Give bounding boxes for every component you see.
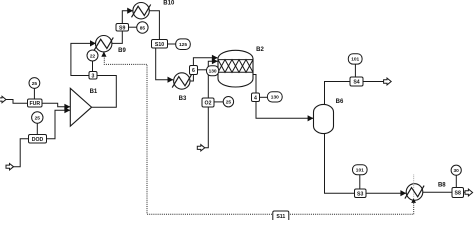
wire O2 feed to B2 bbox=[205, 61, 218, 148]
wire DOD to B1 bbox=[47, 110, 71, 139]
heat exchanger B9 bbox=[94, 36, 113, 52]
wire bubble 125 to S10 bbox=[168, 43, 176, 45]
bubble 130a bbox=[207, 66, 219, 76]
wire stream S3 B6 bottom to B8 bbox=[325, 133, 407, 193]
stream box DOD bbox=[29, 135, 47, 144]
stream box FUR bbox=[28, 99, 43, 107]
wire bubble 101a to S4 bbox=[354, 64, 356, 77]
arrowhead into B2 from stream 6 bbox=[212, 55, 218, 61]
svg-text:125: 125 bbox=[179, 42, 187, 48]
flash vessel B6 bbox=[314, 104, 334, 133]
bubble 25b bbox=[32, 112, 43, 123]
heat exchanger B3 bbox=[172, 73, 191, 89]
arrowhead into B1 from DOD bbox=[64, 107, 70, 113]
wire bubble 22 to box3 bbox=[92, 61, 94, 72]
arrowhead into B10 bbox=[127, 8, 133, 14]
stream box S8 bbox=[452, 188, 464, 198]
energy stream S11 dashed line B9 to B8 bbox=[104, 56, 413, 215]
svg-text:85: 85 bbox=[140, 25, 146, 31]
wire stream S10 B10 down bbox=[149, 11, 159, 43]
arrowhead energy into B9 bottom bbox=[101, 52, 106, 57]
bubble 101a bbox=[348, 54, 362, 64]
energy stream S11 faint segment through B8 bbox=[413, 175, 415, 202]
bubble 25c bbox=[223, 97, 233, 107]
svg-text:S10: S10 bbox=[155, 42, 164, 48]
heat exchanger B10 bbox=[132, 3, 151, 19]
wire FUR to B1 bbox=[42, 103, 70, 107]
product arrow S4 bbox=[384, 78, 392, 85]
svg-text:B9: B9 bbox=[118, 48, 126, 54]
heat exchanger B8 zigzag bbox=[405, 186, 424, 199]
stream box S10 bbox=[152, 40, 168, 49]
svg-text:25: 25 bbox=[32, 81, 38, 87]
svg-text:101: 101 bbox=[356, 168, 364, 174]
wire bubble 101b to S3 bbox=[359, 175, 361, 189]
svg-text:30: 30 bbox=[454, 168, 460, 174]
svg-text:6: 6 bbox=[192, 68, 195, 74]
wire stream 6 B3 to B2 bbox=[190, 58, 218, 81]
stream box S9 bbox=[116, 24, 129, 32]
wire stream S10 to B3 bbox=[156, 44, 173, 80]
arrowhead into B3 bbox=[168, 77, 174, 83]
bubble 22 bbox=[87, 50, 98, 61]
svg-text:S9: S9 bbox=[119, 25, 125, 31]
wire stream 3 box3 to B9 bbox=[71, 43, 96, 75]
bubble 125 bbox=[176, 39, 191, 50]
bubble 101b bbox=[353, 165, 368, 175]
stream box 6 bbox=[190, 66, 198, 75]
svg-text:FUR: FUR bbox=[29, 101, 40, 107]
svg-text:S8: S8 bbox=[455, 191, 461, 197]
wire feed1 to FUR bbox=[6, 100, 28, 104]
arrowhead into B2 from O2 bbox=[212, 58, 218, 64]
svg-text:B8: B8 bbox=[438, 182, 446, 188]
svg-text:S4: S4 bbox=[353, 80, 359, 86]
svg-text:S3: S3 bbox=[357, 191, 363, 197]
wire bubble 130a to box6 bbox=[198, 69, 207, 71]
arrowhead energy into B8 bottom bbox=[411, 198, 416, 203]
heat exchanger B8 bbox=[406, 184, 423, 201]
feed arrow O2 bbox=[197, 145, 205, 151]
arrowhead into B9 bbox=[90, 40, 96, 46]
wire stream S9 B9 to B10 bbox=[112, 11, 133, 44]
wire stream S4 B6 top to product bbox=[325, 82, 384, 105]
bubble 25a bbox=[29, 78, 40, 89]
svg-text:101: 101 bbox=[351, 57, 359, 63]
svg-text:25: 25 bbox=[35, 115, 41, 121]
stream box 4 bbox=[252, 93, 260, 102]
stream box O2 bbox=[202, 98, 214, 107]
arrowhead into B6 bbox=[308, 115, 314, 121]
stream box S11 bbox=[273, 211, 289, 221]
svg-text:3: 3 bbox=[92, 73, 95, 79]
wire bubble 25a to FUR bbox=[33, 88, 35, 99]
product arrow S8 bbox=[465, 189, 473, 196]
svg-text:25: 25 bbox=[226, 100, 232, 106]
svg-text:S11: S11 bbox=[276, 214, 285, 220]
wire stream 3 B1 to box3 bbox=[92, 76, 117, 108]
svg-text:B3: B3 bbox=[179, 96, 187, 102]
bubble 30 bbox=[451, 165, 461, 175]
wire bubble 130b to box4 bbox=[260, 96, 268, 98]
wire stream S8 B8 to product bbox=[423, 191, 466, 193]
svg-text:O2: O2 bbox=[205, 101, 212, 107]
reactor B2 bbox=[218, 50, 253, 87]
bubble 130b bbox=[267, 92, 282, 102]
compressor B1 bbox=[70, 88, 91, 126]
svg-text:B2: B2 bbox=[256, 47, 264, 53]
stream box S3 bbox=[355, 189, 367, 198]
wire bubble 25c to O2 box bbox=[214, 101, 223, 103]
svg-text:22: 22 bbox=[90, 53, 96, 59]
stream box 3 bbox=[89, 72, 97, 80]
wire feed3 to DOD bbox=[14, 139, 29, 167]
wire stream 4 B2 to B6 bbox=[253, 75, 313, 119]
arrowhead into B1 from FUR bbox=[64, 104, 70, 110]
svg-text:B1: B1 bbox=[90, 89, 98, 95]
feed arrow 1 bbox=[0, 96, 6, 102]
arrowhead into B8 bbox=[400, 190, 406, 196]
svg-text:B6: B6 bbox=[336, 99, 344, 105]
feed arrow 3 bbox=[6, 164, 14, 170]
wire bubble 25b to DOD bbox=[36, 123, 38, 134]
svg-text:DOD: DOD bbox=[32, 137, 44, 143]
svg-text:130: 130 bbox=[271, 95, 279, 101]
wire bubble 85 to S9 bbox=[129, 26, 137, 28]
bubble 85 bbox=[137, 22, 148, 33]
stream box S4 bbox=[350, 77, 363, 86]
svg-text:130: 130 bbox=[209, 69, 217, 75]
wire bubble 30 to S8 bbox=[455, 175, 457, 187]
svg-text:4: 4 bbox=[254, 95, 257, 101]
svg-text:B10: B10 bbox=[163, 1, 175, 7]
